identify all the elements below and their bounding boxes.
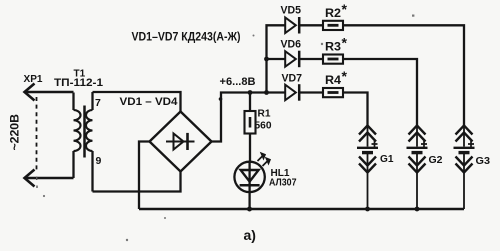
svg-text:*: *: [342, 1, 348, 17]
wire bridge plus to top rail: [212, 93, 267, 142]
transformer T1 primary winding: [74, 93, 81, 179]
bridge rectifier VD1-VD4: [150, 112, 212, 172]
svg-text:R1: R1: [258, 108, 271, 120]
diode VD6: [285, 51, 323, 67]
wire R4 to G1: [343, 93, 368, 127]
junction dot G1 bottom: [365, 207, 370, 212]
wire pin7 to bridge top: [93, 92, 181, 112]
transformer T1 core: [83, 106, 86, 158]
svg-text:560: 560: [255, 120, 272, 132]
wire R2 to G3: [343, 25, 464, 126]
wire branch riser: [267, 25, 285, 92]
connector XP1 pin 2 (bottom arrow): [25, 170, 74, 187]
junction dot HL1 bottom: [247, 207, 252, 212]
junction dot G2 bottom: [415, 207, 420, 212]
svg-text:VD5: VD5: [281, 5, 302, 17]
svg-text:VD7: VD7: [282, 73, 303, 85]
svg-text:ТП-112-1: ТП-112-1: [54, 77, 103, 89]
svg-text:G1: G1: [380, 153, 394, 165]
battery G1: [357, 126, 378, 210]
svg-text:G2: G2: [429, 154, 443, 166]
wire rail to R1: [249, 93, 251, 112]
svg-text:R4: R4: [325, 75, 342, 87]
svg-text:~220В: ~220В: [8, 114, 22, 151]
battery G2: [407, 126, 428, 210]
svg-text:VD1 – VD4: VD1 – VD4: [120, 96, 179, 108]
connector XP1 pin 1 (top arrow): [25, 84, 74, 101]
wire bridge minus to bottom rail: [139, 142, 150, 210]
svg-text:G3: G3: [476, 155, 491, 167]
resistor R1: [245, 111, 256, 134]
svg-text:VD1–VD7 КД243(А-Ж): VD1–VD7 КД243(А-Ж): [132, 30, 241, 44]
diode VD7: [285, 84, 323, 101]
junction dot near bridge plus corner: [219, 97, 223, 101]
wire R3 to G2: [343, 59, 417, 126]
svg-text:R3: R3: [325, 42, 341, 54]
svg-text:R2: R2: [325, 8, 341, 20]
bottom rail wire: [139, 208, 464, 211]
svg-text:7: 7: [95, 97, 101, 109]
transformer T1 secondary winding: [86, 92, 93, 192]
resistor R3: [323, 55, 343, 64]
svg-text:*: *: [342, 68, 348, 84]
svg-text:VD6: VD6: [281, 39, 302, 51]
diode VD5: [285, 17, 323, 34]
wire R1 to HL1: [249, 134, 251, 162]
resistor R2: [323, 21, 343, 30]
connector dashed-line remnants: [36, 177, 38, 189]
scan speckles: [43, 15, 415, 242]
connector XP1 dashed link: [36, 97, 38, 172]
junction dot riser at rail: [264, 90, 269, 95]
junction dot riser at VD6 branch: [264, 57, 269, 62]
wire VD6 branch: [267, 58, 285, 60]
wire pin9 to bridge bottom: [93, 172, 181, 192]
svg-text:а): а): [244, 227, 256, 243]
svg-text:АЛ307: АЛ307: [269, 178, 297, 189]
svg-text:*: *: [342, 35, 348, 51]
battery G3: [454, 126, 475, 210]
wire VD7 branch: [267, 91, 285, 93]
resistor R4: [323, 88, 343, 97]
node R1 top junction: [248, 90, 253, 95]
svg-text:+6...8В: +6...8В: [220, 76, 256, 88]
svg-text:ХР1: ХР1: [24, 73, 43, 85]
svg-text:9: 9: [96, 155, 102, 167]
LED HL1: [234, 153, 270, 210]
